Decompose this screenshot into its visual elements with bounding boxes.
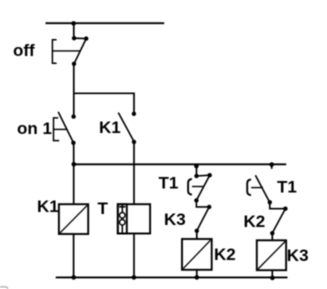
pushbutton off actuator bracket xyxy=(52,40,56,63)
node junction mid rail T1 branch xyxy=(194,164,199,169)
wire elbow T1 to K3 contact xyxy=(196,200,209,207)
timed contact T1 left pivot dot xyxy=(208,173,212,177)
pushbutton off jog link xyxy=(74,37,86,39)
contact K3 lower terminal xyxy=(195,229,199,233)
pushbutton on1 actuator bracket xyxy=(54,118,60,141)
svg-text:K2: K2 xyxy=(244,212,266,231)
corner selection handle xyxy=(0,287,8,289)
timer coil T inner winding rect xyxy=(118,204,127,233)
wire bottom return rail xyxy=(56,276,288,278)
wire top rail to off button xyxy=(73,23,75,38)
wire off button down to branch node xyxy=(73,64,75,117)
timer coil T winding top bar xyxy=(119,206,125,208)
contact K3 blade xyxy=(197,207,209,231)
pushbutton off lower terminal xyxy=(72,62,76,66)
relay coil K2 box xyxy=(182,239,212,270)
contact K1 (NO) upper terminal xyxy=(132,112,136,116)
wire K1 contact to T coil xyxy=(133,142,135,205)
svg-text:T: T xyxy=(98,199,109,218)
wire on1 to K1 coil xyxy=(73,143,75,205)
timer coil T winding loop lower xyxy=(120,220,126,226)
pushbutton on1 lower terminal xyxy=(71,141,75,145)
node junction bottom rail K2 xyxy=(195,275,200,280)
wire K3 coil to bottom rail xyxy=(271,270,273,277)
timed contact T1 left lower terminal xyxy=(194,198,198,202)
svg-text:K3: K3 xyxy=(164,210,186,229)
svg-text:K3: K3 xyxy=(287,246,309,265)
wire top supply rail xyxy=(46,22,165,24)
timed contact T1 right actuator rod xyxy=(251,187,263,189)
wire branch to K1 contact xyxy=(74,93,134,113)
timed contact T1 left actuator rod xyxy=(192,186,204,188)
node junction bottom rail K1 xyxy=(71,275,76,280)
timed contact T1 left blade xyxy=(196,175,209,200)
contact K2 blade xyxy=(272,209,285,233)
timed contact T1 left delay arc xyxy=(188,179,192,195)
contact K1 blade xyxy=(118,113,134,142)
svg-text:K2: K2 xyxy=(214,245,236,264)
wire middle distribution rail xyxy=(74,163,287,165)
wire K1 coil to bottom rail xyxy=(73,234,75,277)
node junction bottom rail T xyxy=(132,275,137,280)
timed contact T1 left jog link xyxy=(197,174,210,177)
wire T coil to bottom rail xyxy=(133,234,135,278)
timed contact T1 right delay arc xyxy=(247,180,251,196)
timed contact T1 left (NC) upper terminal xyxy=(194,174,198,178)
svg-text:K1: K1 xyxy=(99,118,121,137)
svg-text:T1: T1 xyxy=(277,178,297,197)
wire elbow T1 right to K2 contact xyxy=(270,202,286,208)
wire K2 coil to bottom rail xyxy=(196,270,198,278)
node junction on top rail xyxy=(71,21,76,26)
svg-text:on 1: on 1 xyxy=(17,119,52,138)
wire K3 contact to K2 coil xyxy=(196,231,198,239)
pushbutton off actuator rod xyxy=(52,50,80,52)
timer coil T winding stem xyxy=(121,204,123,233)
pushbutton on1 blade xyxy=(58,112,73,143)
timer coil T box xyxy=(118,204,150,233)
relay coil K3 diagonal xyxy=(258,242,285,270)
contact K1 lower terminal xyxy=(132,140,136,144)
relay coil K2 diagonal xyxy=(183,240,210,268)
pushbutton off (NC) upper terminal xyxy=(72,36,76,40)
relay coil K3 box xyxy=(257,240,286,270)
contact K2 lower terminal xyxy=(270,231,274,235)
node junction mid rail right branch xyxy=(269,162,274,167)
pushbutton on1 (NO) upper terminal xyxy=(71,114,75,118)
wire mid rail to T1 contact xyxy=(196,166,198,176)
svg-text:off: off xyxy=(13,41,35,60)
wire K2 contact to K3 coil xyxy=(271,233,273,240)
relay coil K1 box xyxy=(59,204,88,234)
pushbutton on1 actuator rod xyxy=(54,128,68,130)
wire stub right branch xyxy=(271,164,273,169)
svg-text:T1: T1 xyxy=(159,174,179,193)
timed contact T1 right lower terminal xyxy=(268,200,272,204)
contact K2 (NC) upper terminal xyxy=(283,207,287,211)
timer coil T winding loop upper xyxy=(120,213,126,219)
svg-text:K1: K1 xyxy=(37,197,59,216)
pushbutton off pivot dot xyxy=(84,36,88,40)
node junction bottom rail K3 xyxy=(270,276,275,281)
node junction mid rail left xyxy=(72,162,77,167)
timed contact T1 right (NO) blade xyxy=(255,175,269,202)
relay coil K1 diagonal xyxy=(60,205,87,232)
pushbutton off blade xyxy=(74,39,86,64)
contact K3 (NC) upper terminal xyxy=(207,205,211,209)
